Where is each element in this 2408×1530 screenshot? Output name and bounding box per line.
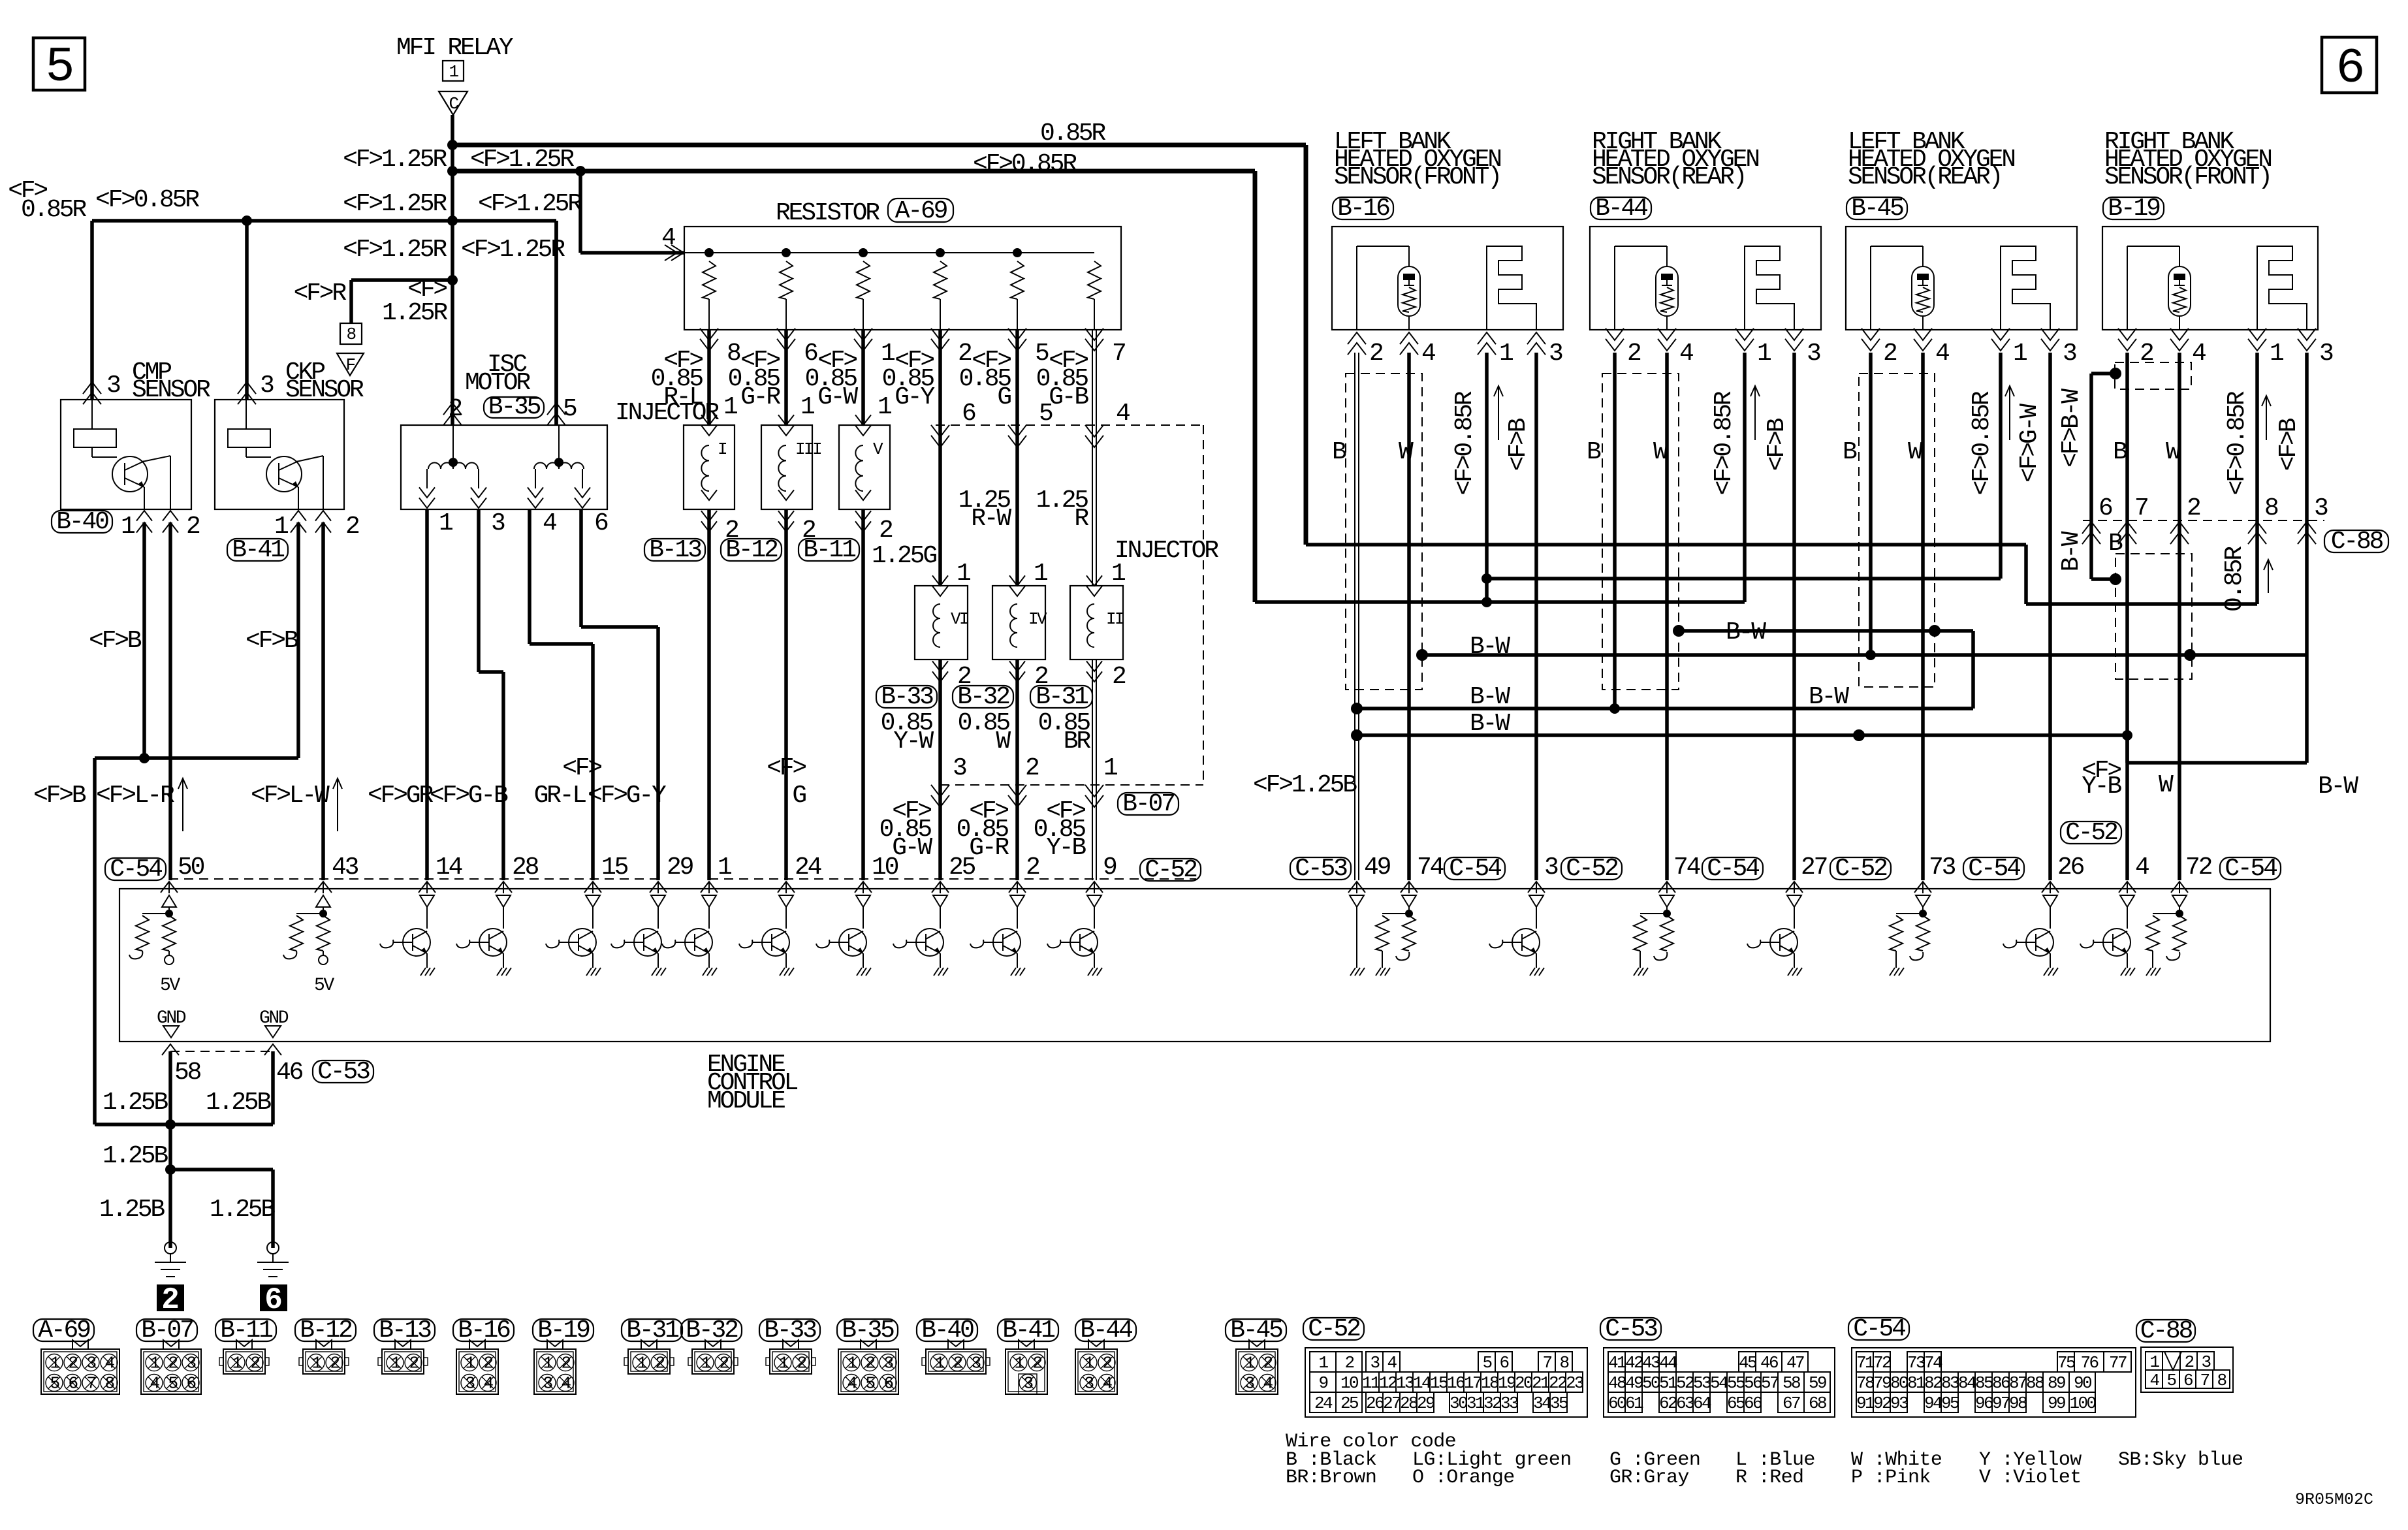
svg-text:65: 65 bbox=[1727, 1394, 1745, 1413]
svg-text:0.85R: 0.85R bbox=[21, 196, 86, 224]
svg-text:B-W: B-W bbox=[2318, 773, 2358, 801]
svg-text:A-69: A-69 bbox=[895, 197, 947, 225]
svg-text:C-52: C-52 bbox=[1835, 855, 1887, 883]
svg-text:1.25B: 1.25B bbox=[103, 1142, 168, 1170]
svg-text:<F>GR: <F>GR bbox=[368, 782, 433, 810]
svg-text:1: 1 bbox=[465, 1354, 475, 1373]
svg-text:G-Y: G-Y bbox=[895, 383, 935, 411]
svg-text:1: 1 bbox=[934, 1354, 944, 1373]
svg-text:3: 3 bbox=[1244, 1374, 1254, 1394]
svg-text:B-16: B-16 bbox=[1337, 195, 1389, 223]
svg-text:1: 1 bbox=[881, 340, 895, 368]
svg-text:G-W: G-W bbox=[892, 834, 932, 862]
svg-text:1: 1 bbox=[1034, 560, 1047, 588]
svg-text:<F>1.25R: <F>1.25R bbox=[470, 146, 574, 174]
svg-text:<F>L-R: <F>L-R bbox=[96, 782, 174, 810]
svg-text:47: 47 bbox=[1786, 1353, 1804, 1373]
svg-text:1.25G: 1.25G bbox=[872, 542, 936, 570]
svg-text:MFI RELAY: MFI RELAY bbox=[396, 34, 514, 62]
svg-text:86: 86 bbox=[1992, 1373, 2010, 1393]
svg-text:8: 8 bbox=[727, 340, 740, 368]
svg-text:SENSOR(REAR): SENSOR(REAR) bbox=[1848, 163, 2001, 191]
svg-text:R :Red: R :Red bbox=[1735, 1467, 1803, 1489]
svg-text:1: 1 bbox=[121, 513, 135, 541]
svg-text:60: 60 bbox=[1608, 1394, 1626, 1413]
svg-text:32: 32 bbox=[1483, 1394, 1501, 1413]
svg-text:2: 2 bbox=[797, 1354, 806, 1373]
svg-text:61: 61 bbox=[1625, 1394, 1643, 1413]
svg-text:1: 1 bbox=[449, 62, 458, 82]
svg-text:3: 3 bbox=[1084, 1374, 1093, 1394]
svg-text:B-33: B-33 bbox=[764, 1316, 816, 1345]
svg-text:C-54: C-54 bbox=[110, 855, 162, 884]
svg-text:3: 3 bbox=[2314, 494, 2328, 522]
svg-text:2: 2 bbox=[250, 1354, 259, 1373]
svg-text:9: 9 bbox=[1103, 853, 1117, 882]
svg-text:95: 95 bbox=[1941, 1394, 1959, 1413]
svg-text:6: 6 bbox=[594, 509, 608, 537]
svg-text:7: 7 bbox=[1542, 1353, 1551, 1373]
svg-text:2: 2 bbox=[1026, 853, 1039, 882]
svg-text:GR:Gray: GR:Gray bbox=[1609, 1467, 1689, 1489]
svg-text:18: 18 bbox=[1481, 1373, 1498, 1393]
svg-text:<F>B: <F>B bbox=[2275, 418, 2303, 471]
svg-text:2: 2 bbox=[1883, 340, 1897, 368]
svg-text:2: 2 bbox=[879, 517, 893, 545]
svg-text:97: 97 bbox=[1992, 1394, 2010, 1413]
svg-text:7: 7 bbox=[86, 1374, 95, 1394]
svg-text:3: 3 bbox=[2201, 1352, 2210, 1372]
svg-text:<F>B-W: <F>B-W bbox=[2057, 389, 2085, 468]
svg-text:1: 1 bbox=[2270, 340, 2283, 368]
svg-text:2: 2 bbox=[448, 395, 462, 423]
svg-text:4: 4 bbox=[543, 509, 556, 537]
svg-text:16: 16 bbox=[1447, 1373, 1465, 1393]
svg-text:1: 1 bbox=[800, 393, 814, 421]
svg-text:27: 27 bbox=[1801, 853, 1827, 882]
svg-text:34: 34 bbox=[1533, 1394, 1551, 1413]
svg-text:67: 67 bbox=[1782, 1394, 1800, 1413]
svg-text:5: 5 bbox=[2166, 1371, 2176, 1390]
svg-text:1: 1 bbox=[150, 1354, 159, 1373]
svg-text:B-33: B-33 bbox=[881, 683, 933, 711]
svg-text:C: C bbox=[449, 94, 458, 114]
svg-text:1.25B: 1.25B bbox=[206, 1089, 271, 1117]
svg-text:6: 6 bbox=[68, 1374, 77, 1394]
svg-text:1: 1 bbox=[543, 1354, 552, 1373]
svg-text:46: 46 bbox=[1760, 1353, 1778, 1373]
svg-text:IV: IV bbox=[1028, 609, 1047, 629]
svg-text:4: 4 bbox=[1263, 1374, 1273, 1394]
svg-text:B-07: B-07 bbox=[141, 1316, 193, 1345]
svg-text:3: 3 bbox=[971, 1354, 980, 1373]
svg-text:49: 49 bbox=[1364, 853, 1391, 882]
svg-text:B-19: B-19 bbox=[537, 1316, 590, 1345]
svg-text:2: 2 bbox=[345, 513, 359, 541]
svg-text:71: 71 bbox=[1856, 1353, 1875, 1373]
svg-text:<F>1.25R: <F>1.25R bbox=[343, 146, 447, 174]
svg-text:<F>0.85R: <F>0.85R bbox=[1451, 391, 1479, 495]
svg-text:1: 1 bbox=[957, 560, 970, 588]
svg-text:5V: 5V bbox=[314, 976, 334, 996]
svg-text:2: 2 bbox=[1032, 1354, 1041, 1373]
svg-text:14: 14 bbox=[1413, 1373, 1431, 1393]
svg-text:17: 17 bbox=[1464, 1373, 1481, 1393]
svg-text:2: 2 bbox=[409, 1354, 418, 1373]
svg-text:1: 1 bbox=[390, 1354, 400, 1373]
svg-text:1: 1 bbox=[50, 1354, 59, 1373]
svg-text:C-53: C-53 bbox=[1605, 1315, 1657, 1343]
svg-text:1: 1 bbox=[701, 1354, 710, 1373]
svg-text:2: 2 bbox=[161, 1283, 180, 1317]
svg-text:43: 43 bbox=[332, 853, 358, 882]
svg-text:<F>1.25R: <F>1.25R bbox=[478, 190, 582, 218]
svg-text:4: 4 bbox=[1116, 400, 1130, 428]
svg-text:2: 2 bbox=[2187, 494, 2200, 522]
svg-text:3: 3 bbox=[1370, 1353, 1379, 1373]
svg-text:92: 92 bbox=[1873, 1394, 1891, 1413]
svg-text:V :Violet: V :Violet bbox=[1979, 1467, 2082, 1489]
svg-text:R: R bbox=[1074, 505, 1088, 533]
svg-text:C-53: C-53 bbox=[317, 1058, 370, 1086]
svg-text:15: 15 bbox=[1430, 1373, 1448, 1393]
svg-text:2: 2 bbox=[1627, 340, 1641, 368]
svg-text:2: 2 bbox=[186, 513, 200, 541]
svg-text:4: 4 bbox=[2192, 340, 2206, 368]
svg-text:SB:Sky blue: SB:Sky blue bbox=[2118, 1449, 2243, 1471]
svg-text:62: 62 bbox=[1659, 1394, 1677, 1413]
svg-text:<F>: <F> bbox=[562, 754, 601, 782]
svg-text:B-13: B-13 bbox=[649, 536, 701, 564]
svg-text:6: 6 bbox=[883, 1374, 893, 1394]
svg-text:BR:Brown: BR:Brown bbox=[1286, 1467, 1376, 1489]
svg-text:0.85R: 0.85R bbox=[2221, 547, 2249, 612]
svg-text:G-B: G-B bbox=[1049, 383, 1088, 411]
svg-text:1: 1 bbox=[439, 509, 452, 537]
svg-text:1: 1 bbox=[637, 1354, 646, 1373]
svg-text:4: 4 bbox=[661, 224, 675, 252]
svg-text:1.25B: 1.25B bbox=[99, 1196, 165, 1224]
svg-text:B-07: B-07 bbox=[1122, 790, 1174, 818]
svg-text:F: F bbox=[345, 355, 355, 375]
svg-text:11: 11 bbox=[1362, 1373, 1380, 1393]
svg-text:6: 6 bbox=[186, 1374, 195, 1394]
svg-text:89: 89 bbox=[2048, 1373, 2065, 1393]
svg-text:82: 82 bbox=[1924, 1373, 1942, 1393]
svg-text:21: 21 bbox=[1532, 1373, 1550, 1393]
svg-text:45: 45 bbox=[1739, 1353, 1756, 1373]
svg-text:III: III bbox=[795, 439, 821, 459]
svg-text:66: 66 bbox=[1744, 1394, 1762, 1413]
svg-text:C-88: C-88 bbox=[2140, 1317, 2193, 1345]
svg-text:1: 1 bbox=[1499, 340, 1513, 368]
svg-text:Y-W: Y-W bbox=[893, 727, 934, 756]
svg-text:1: 1 bbox=[847, 1354, 857, 1373]
svg-text:68: 68 bbox=[1809, 1394, 1826, 1413]
svg-text:1: 1 bbox=[1014, 1354, 1024, 1373]
svg-text:10: 10 bbox=[1340, 1373, 1358, 1393]
svg-text:5: 5 bbox=[1482, 1353, 1491, 1373]
svg-text:2: 2 bbox=[2140, 340, 2153, 368]
svg-text:SENSOR(FRONT): SENSOR(FRONT) bbox=[1334, 163, 1500, 191]
svg-text:B-45: B-45 bbox=[1230, 1316, 1282, 1345]
svg-text:2: 2 bbox=[1344, 1353, 1354, 1373]
svg-text:15: 15 bbox=[601, 853, 628, 882]
svg-text:<F>0.85R: <F>0.85R bbox=[1710, 391, 1738, 495]
svg-text:5: 5 bbox=[1039, 400, 1053, 428]
svg-text:B-W: B-W bbox=[2057, 531, 2085, 571]
svg-text:3: 3 bbox=[1549, 340, 1562, 368]
svg-text:2: 2 bbox=[953, 1354, 962, 1373]
svg-text:B-32: B-32 bbox=[957, 683, 1009, 711]
svg-text:<F>B: <F>B bbox=[1763, 418, 1791, 471]
svg-text:3: 3 bbox=[953, 754, 966, 782]
svg-text:B-31: B-31 bbox=[1036, 683, 1088, 711]
svg-text:2: 2 bbox=[483, 1354, 492, 1373]
svg-text:52: 52 bbox=[1676, 1373, 1694, 1393]
svg-text:C-54: C-54 bbox=[1968, 855, 2020, 883]
svg-text:35: 35 bbox=[1550, 1394, 1568, 1413]
svg-text:<F>B: <F>B bbox=[89, 627, 142, 655]
svg-text:0.85R: 0.85R bbox=[1040, 120, 1105, 148]
svg-text:G-W: G-W bbox=[817, 383, 858, 411]
svg-text:6: 6 bbox=[2336, 41, 2362, 97]
svg-text:1: 1 bbox=[778, 1354, 788, 1373]
svg-text:27: 27 bbox=[1383, 1394, 1401, 1413]
svg-text:29: 29 bbox=[1417, 1394, 1434, 1413]
svg-text:B-35: B-35 bbox=[842, 1316, 894, 1345]
svg-text:1: 1 bbox=[1318, 1353, 1328, 1373]
svg-text:2: 2 bbox=[68, 1354, 77, 1373]
svg-text:3: 3 bbox=[186, 1354, 195, 1373]
svg-text:33: 33 bbox=[1500, 1394, 1518, 1413]
svg-text:8: 8 bbox=[346, 325, 355, 344]
svg-text:28: 28 bbox=[1400, 1394, 1418, 1413]
svg-text:II: II bbox=[1106, 609, 1124, 629]
svg-text:B-W: B-W bbox=[1470, 710, 1510, 738]
svg-text:2: 2 bbox=[168, 1354, 177, 1373]
svg-text:57: 57 bbox=[1761, 1373, 1779, 1393]
svg-text:7: 7 bbox=[2134, 494, 2147, 522]
svg-text:3: 3 bbox=[465, 1374, 474, 1394]
svg-text:B-19: B-19 bbox=[2108, 195, 2160, 223]
svg-text:22: 22 bbox=[1549, 1373, 1566, 1393]
svg-text:4: 4 bbox=[150, 1374, 159, 1394]
svg-text:B-13: B-13 bbox=[379, 1316, 431, 1345]
svg-text:6: 6 bbox=[804, 340, 817, 368]
svg-text:<F>0.85R: <F>0.85R bbox=[1968, 391, 1996, 495]
svg-text:13: 13 bbox=[1396, 1373, 1414, 1393]
svg-text:49: 49 bbox=[1625, 1373, 1643, 1393]
svg-text:1: 1 bbox=[1757, 340, 1771, 368]
svg-text:C-53: C-53 bbox=[1295, 855, 1347, 883]
svg-text:44: 44 bbox=[1659, 1353, 1677, 1373]
svg-text:3: 3 bbox=[883, 1354, 893, 1373]
svg-text:10: 10 bbox=[872, 853, 898, 882]
svg-text:W: W bbox=[1908, 438, 1923, 466]
svg-text:B-40: B-40 bbox=[56, 508, 108, 536]
svg-text:1: 1 bbox=[1084, 1354, 1094, 1373]
svg-text:87: 87 bbox=[2009, 1373, 2027, 1393]
svg-text:7: 7 bbox=[2200, 1371, 2209, 1390]
svg-text:1.25R: 1.25R bbox=[382, 299, 447, 327]
svg-text:74: 74 bbox=[1924, 1353, 1942, 1373]
svg-text:4: 4 bbox=[2135, 853, 2149, 882]
svg-text:1: 1 bbox=[718, 853, 731, 882]
svg-text:2: 2 bbox=[1112, 663, 1126, 691]
svg-text:90: 90 bbox=[2074, 1373, 2091, 1393]
svg-text:1: 1 bbox=[274, 513, 288, 541]
svg-text:30: 30 bbox=[1450, 1394, 1467, 1413]
svg-text:25: 25 bbox=[949, 853, 975, 882]
svg-text:<F>G-Y: <F>G-Y bbox=[588, 782, 667, 810]
svg-text:75: 75 bbox=[2057, 1353, 2075, 1373]
svg-text:B-44: B-44 bbox=[1595, 195, 1647, 223]
svg-text:74: 74 bbox=[1417, 853, 1444, 882]
svg-text:C-88: C-88 bbox=[2331, 528, 2383, 556]
svg-text:3: 3 bbox=[543, 1374, 552, 1394]
svg-text:50: 50 bbox=[1642, 1373, 1660, 1393]
svg-text:C-52: C-52 bbox=[2065, 819, 2117, 847]
svg-text:63: 63 bbox=[1676, 1394, 1694, 1413]
svg-text:64: 64 bbox=[1693, 1394, 1711, 1413]
svg-text:78: 78 bbox=[1856, 1373, 1874, 1393]
svg-text:C-54: C-54 bbox=[1707, 855, 1759, 883]
svg-text:B-35: B-35 bbox=[488, 393, 541, 421]
svg-text:6: 6 bbox=[962, 400, 975, 428]
svg-text:<F>1.25R: <F>1.25R bbox=[461, 236, 565, 264]
svg-text:2: 2 bbox=[719, 1354, 728, 1373]
svg-text:4: 4 bbox=[847, 1374, 857, 1394]
svg-text:Y-B: Y-B bbox=[1046, 834, 1086, 862]
svg-text:W: W bbox=[996, 727, 1011, 756]
svg-text:<F>L-W: <F>L-W bbox=[251, 782, 330, 810]
svg-text:B-W: B-W bbox=[1470, 633, 1510, 661]
svg-text:53: 53 bbox=[1693, 1373, 1711, 1393]
svg-text:G: G bbox=[997, 383, 1011, 411]
svg-text:O :Orange: O :Orange bbox=[1412, 1467, 1515, 1489]
svg-text:84: 84 bbox=[1958, 1373, 1976, 1393]
svg-text:88: 88 bbox=[2026, 1373, 2044, 1393]
svg-text:B: B bbox=[1332, 438, 1346, 466]
svg-text:25: 25 bbox=[1340, 1394, 1358, 1413]
svg-text:3: 3 bbox=[260, 372, 274, 400]
svg-text:24: 24 bbox=[795, 853, 821, 882]
svg-text:<F>1.25R: <F>1.25R bbox=[343, 236, 447, 264]
svg-text:5: 5 bbox=[45, 40, 72, 95]
svg-text:55: 55 bbox=[1727, 1373, 1745, 1393]
svg-text:2: 2 bbox=[1102, 1354, 1111, 1373]
svg-text:72: 72 bbox=[2185, 853, 2212, 882]
svg-text:<F>1.25B: <F>1.25B bbox=[1253, 771, 1357, 799]
svg-text:B: B bbox=[1587, 438, 1601, 466]
svg-text:C-52: C-52 bbox=[1566, 855, 1618, 883]
svg-text:99: 99 bbox=[2048, 1394, 2065, 1413]
svg-text:28: 28 bbox=[512, 853, 539, 882]
svg-text:Y-B: Y-B bbox=[2082, 773, 2121, 801]
svg-text:56: 56 bbox=[1744, 1373, 1762, 1393]
svg-text:B: B bbox=[1843, 438, 1857, 466]
svg-text:C-54: C-54 bbox=[1853, 1315, 1905, 1343]
svg-text:RESISTOR: RESISTOR bbox=[776, 199, 879, 227]
svg-text:2: 2 bbox=[330, 1354, 339, 1373]
svg-text:1: 1 bbox=[232, 1354, 242, 1373]
svg-text:4: 4 bbox=[1102, 1374, 1112, 1394]
svg-text:6: 6 bbox=[1499, 1353, 1508, 1373]
svg-text:<F>1.25R: <F>1.25R bbox=[343, 190, 447, 218]
svg-text:14: 14 bbox=[436, 853, 462, 882]
svg-text:8: 8 bbox=[2217, 1371, 2226, 1390]
svg-text:1: 1 bbox=[2149, 1352, 2159, 1372]
svg-text:9: 9 bbox=[1318, 1373, 1327, 1393]
svg-text:77: 77 bbox=[2109, 1353, 2127, 1373]
svg-text:2: 2 bbox=[1263, 1354, 1272, 1373]
svg-text:2: 2 bbox=[1369, 340, 1383, 368]
svg-text:6: 6 bbox=[2183, 1371, 2193, 1390]
svg-text:MODULE: MODULE bbox=[707, 1087, 785, 1115]
svg-text:80: 80 bbox=[1890, 1373, 1908, 1393]
svg-text:12: 12 bbox=[1379, 1373, 1397, 1393]
svg-text:INJECTOR: INJECTOR bbox=[1115, 537, 1218, 565]
svg-text:59: 59 bbox=[1809, 1373, 1826, 1393]
svg-text:<F>B: <F>B bbox=[1504, 418, 1532, 471]
svg-text:24: 24 bbox=[1314, 1394, 1333, 1413]
svg-text:<F>R: <F>R bbox=[294, 279, 347, 308]
svg-text:46: 46 bbox=[276, 1059, 303, 1087]
svg-text:1: 1 bbox=[1103, 754, 1117, 782]
svg-text:B-32: B-32 bbox=[686, 1316, 738, 1345]
svg-text:6: 6 bbox=[2099, 494, 2112, 522]
svg-text:19: 19 bbox=[1498, 1373, 1515, 1393]
svg-text:BR: BR bbox=[1064, 727, 1091, 756]
svg-text:58: 58 bbox=[174, 1059, 201, 1087]
svg-text:B-12: B-12 bbox=[300, 1316, 352, 1345]
svg-text:1.25B: 1.25B bbox=[210, 1196, 275, 1224]
svg-text:1: 1 bbox=[878, 393, 891, 421]
svg-text:1: 1 bbox=[1244, 1354, 1254, 1373]
svg-text:5: 5 bbox=[865, 1374, 874, 1394]
svg-text:<F>0.85R: <F>0.85R bbox=[973, 150, 1077, 178]
svg-text:50: 50 bbox=[178, 853, 204, 882]
svg-text:2: 2 bbox=[655, 1354, 664, 1373]
svg-text:98: 98 bbox=[2009, 1394, 2027, 1413]
svg-text:42: 42 bbox=[1625, 1353, 1643, 1373]
svg-text:76: 76 bbox=[2080, 1353, 2098, 1373]
svg-text:1: 1 bbox=[723, 393, 737, 421]
svg-text:A-69: A-69 bbox=[38, 1316, 90, 1345]
svg-text:4: 4 bbox=[1387, 1353, 1397, 1373]
svg-text:3: 3 bbox=[1544, 853, 1558, 882]
svg-text:GR-L: GR-L bbox=[534, 782, 586, 810]
svg-text:SENSOR(REAR): SENSOR(REAR) bbox=[1592, 163, 1745, 191]
svg-text:8: 8 bbox=[104, 1374, 114, 1394]
svg-text:72: 72 bbox=[1873, 1353, 1891, 1373]
svg-text:3: 3 bbox=[491, 509, 505, 537]
svg-text:8: 8 bbox=[1559, 1353, 1568, 1373]
svg-text:5: 5 bbox=[1035, 340, 1049, 368]
svg-text:4: 4 bbox=[1935, 340, 1949, 368]
svg-text:P :Pink: P :Pink bbox=[1851, 1467, 1931, 1489]
svg-text:B-11: B-11 bbox=[220, 1316, 272, 1345]
svg-text:3: 3 bbox=[1023, 1374, 1032, 1394]
svg-text:C-54: C-54 bbox=[2225, 855, 2277, 883]
svg-text:4: 4 bbox=[104, 1354, 114, 1373]
svg-text:74: 74 bbox=[1673, 853, 1700, 882]
svg-text:<F>B: <F>B bbox=[33, 782, 86, 810]
svg-text:26: 26 bbox=[1366, 1394, 1384, 1413]
svg-text:1: 1 bbox=[1111, 560, 1125, 588]
svg-text:79: 79 bbox=[1873, 1373, 1891, 1393]
